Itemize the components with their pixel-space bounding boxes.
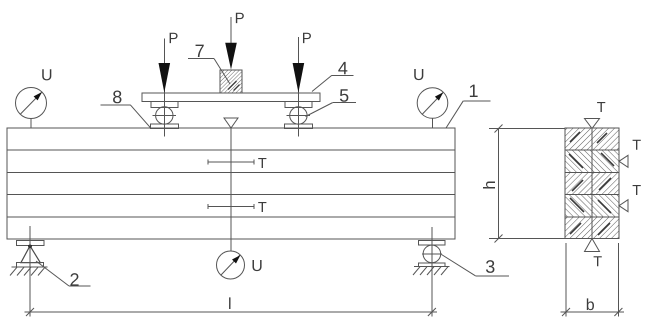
- svg-text:T: T: [632, 183, 641, 199]
- svg-text:3: 3: [485, 257, 495, 277]
- svg-text:U: U: [251, 258, 263, 275]
- svg-text:2: 2: [69, 270, 79, 290]
- svg-text:1: 1: [468, 81, 478, 101]
- svg-text:T: T: [597, 100, 606, 116]
- svg-text:h: h: [481, 180, 499, 189]
- svg-text:T: T: [632, 138, 641, 154]
- svg-text:T: T: [258, 156, 267, 172]
- svg-text:b: b: [586, 297, 595, 314]
- svg-text:P: P: [235, 10, 245, 27]
- svg-text:T: T: [593, 254, 602, 270]
- svg-text:l: l: [228, 296, 232, 313]
- svg-text:T: T: [258, 200, 267, 216]
- svg-text:P: P: [168, 30, 178, 47]
- svg-text:P: P: [302, 30, 312, 47]
- svg-text:8: 8: [112, 87, 122, 107]
- svg-text:U: U: [413, 67, 425, 84]
- svg-text:U: U: [41, 67, 53, 84]
